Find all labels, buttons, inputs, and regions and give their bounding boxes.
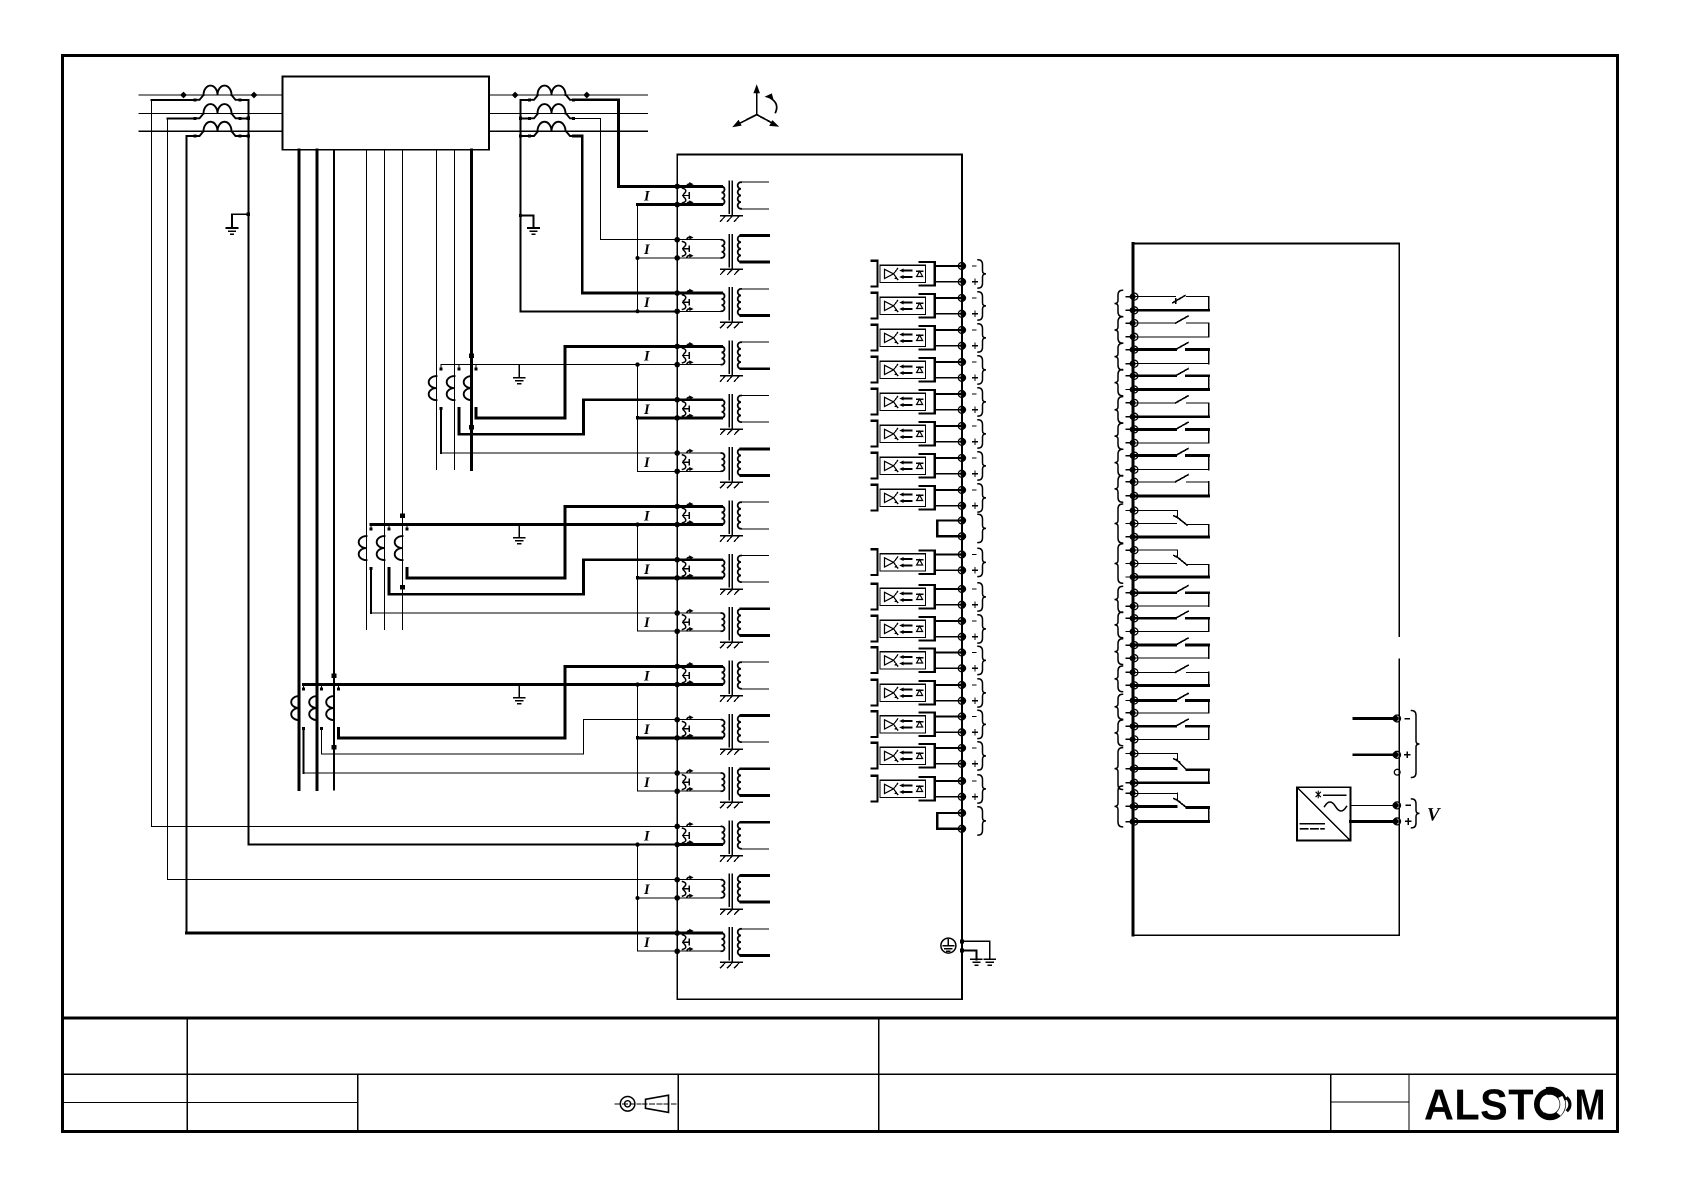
opto input L3	[871, 325, 961, 351]
brace (RL8)	[1115, 476, 1123, 503]
label + (L7)	[973, 471, 978, 476]
current input transformer T7 (input I7)	[674, 501, 768, 541]
ground (left CT group)	[227, 228, 238, 234]
label + (L9)	[973, 568, 978, 573]
svg-text:I: I	[643, 882, 651, 898]
wire CT-RA s2 to I1 top	[574, 100, 678, 187]
label + (L4)	[973, 375, 978, 380]
GB-CT2 top stub	[388, 525, 390, 529]
output contact RL12	[1133, 611, 1209, 631]
wire I2 bottom return	[638, 257, 678, 259]
brace (J2)	[978, 807, 986, 835]
svg-text:I: I	[643, 615, 651, 631]
phase A line (left)	[139, 94, 283, 96]
wire earth link a	[962, 941, 990, 959]
wire riser x186 (to I15 top)	[185, 136, 187, 933]
brace (L5)	[978, 388, 986, 416]
output contact RL16	[1133, 719, 1209, 739]
junction case earth a	[960, 939, 964, 943]
brace (RL10)	[1115, 544, 1123, 583]
svg-text:I: I	[643, 828, 651, 844]
junction I2 bottom	[636, 256, 640, 260]
current input transformer T4 (input I4)	[674, 341, 768, 381]
ground (earth link b)	[971, 959, 982, 965]
junction I13 bottom riser	[635, 842, 639, 846]
wire GB-CT1 stub	[370, 569, 372, 613]
current input transformer T3 (input I3)	[674, 288, 768, 328]
GB-CT2 secondary terminals	[388, 527, 391, 530]
wire I11 bottom	[638, 737, 678, 740]
current input transformer T15 (input I15)	[674, 928, 768, 968]
opto input L8	[871, 485, 961, 511]
projection symbol circles	[615, 1097, 641, 1112]
current transformer CT-RC (line CT, phase C)	[538, 122, 566, 131]
svg-text:ALST: ALST	[1424, 1082, 1534, 1130]
aux supply - line	[1354, 717, 1393, 720]
wire CT-LA s2 to common riser	[240, 99, 248, 101]
output contact RL6	[1133, 422, 1209, 443]
GC-CT2 secondary terminals	[320, 687, 323, 690]
title block divider v3	[357, 1074, 359, 1131]
junction CT-RC s1	[519, 134, 522, 137]
label + (L10)	[973, 602, 978, 607]
wire I6 bottom	[638, 470, 678, 472]
GB-CT3 polarity markers	[400, 513, 405, 518]
junction I14 bottom	[636, 896, 640, 900]
wire GA-CT1 stub	[440, 409, 442, 453]
output contact RL3	[1133, 343, 1209, 364]
svg-text:I: I	[643, 242, 651, 258]
ALSTOM logo	[1424, 1082, 1606, 1130]
brace (RL14)	[1115, 666, 1123, 692]
current transformer CT-LA (line CT, phase A)	[204, 86, 232, 95]
wire I9 bottom	[638, 630, 678, 632]
output contact RL11	[1133, 586, 1209, 607]
label + (V)	[1406, 819, 1412, 825]
opto input L14	[871, 711, 961, 737]
opto input L15	[871, 743, 961, 769]
junction ground tap right	[519, 214, 522, 217]
junction GB return/riser	[635, 522, 639, 526]
wire GB common riser x637	[637, 525, 639, 632]
label - (L12)	[973, 652, 977, 654]
terminal pair L3	[958, 327, 965, 334]
field voltage + line	[1350, 820, 1393, 823]
CT-LA secondary terminals	[194, 98, 197, 101]
phase C line (left)	[139, 130, 283, 132]
label + (L14)	[973, 730, 978, 735]
junction I5 bottom	[636, 416, 639, 419]
field voltage - line	[1350, 804, 1393, 806]
svg-text:I: I	[643, 402, 651, 418]
ground (earth link a)	[984, 959, 995, 965]
CT-LB secondary terminals	[194, 117, 197, 120]
current input transformer T11 (input I11)	[674, 715, 768, 755]
GA-CT3 top stub	[475, 365, 477, 369]
jumper link J1	[937, 519, 961, 521]
current transformer CT-LB (line CT, phase B)	[204, 104, 232, 113]
opto input L2	[871, 293, 961, 319]
label + (L1)	[973, 279, 978, 284]
label - (L5)	[973, 393, 977, 395]
opto input L4	[871, 357, 961, 383]
terminal pair J1	[958, 517, 965, 524]
current transformer GA-CT1	[429, 376, 437, 400]
label + (L8)	[973, 503, 978, 508]
label - (L7)	[973, 457, 977, 459]
wire GC-CT1 stub	[303, 729, 305, 773]
svg-text:I: I	[643, 935, 651, 951]
GB-CT3 top stub	[406, 525, 408, 529]
ground (GA group)	[514, 378, 525, 384]
GA-CT1 secondary terminals	[440, 367, 443, 370]
terminal pair L5	[958, 391, 965, 398]
wire common riser x637 (I13-I15)	[637, 845, 639, 952]
GC-CT1 secondary terminals	[302, 687, 305, 690]
ground stub (right CT group)	[521, 216, 534, 229]
polarity diamond CT-RA P2	[583, 92, 590, 99]
GA-CT1 top stub	[440, 365, 442, 369]
current transformer GB-CT3	[395, 536, 403, 560]
brace (L1)	[978, 260, 986, 288]
changeover contact RL9	[1133, 511, 1209, 537]
junction GC return/riser	[635, 682, 639, 686]
brace (RL15)	[1115, 694, 1123, 719]
label - (L9)	[973, 554, 977, 556]
wire GC-CT1 to I12 top	[304, 772, 678, 774]
terminal pair RL5	[1131, 399, 1138, 406]
brace (RL12)	[1115, 612, 1123, 638]
current input transformer T9 (input I9)	[674, 608, 768, 648]
brace (L11)	[978, 615, 986, 643]
brace (J1)	[978, 514, 986, 542]
brace (RL1)	[1115, 290, 1123, 316]
wire GA-CT2 to I5 top	[459, 400, 677, 435]
brace (RL2)	[1115, 317, 1123, 343]
power transformer block T1	[283, 77, 489, 150]
GA-CT2 secondary terminals	[458, 367, 461, 370]
wire GC return line to I10 bottom	[304, 683, 678, 686]
junction CT-RB s1	[519, 117, 522, 120]
current input transformer T6 (input I6)	[674, 448, 768, 488]
brace (RL4)	[1115, 370, 1123, 396]
GC CT2 primary line	[316, 150, 319, 790]
GC-CT1 top stub	[303, 685, 305, 689]
current input transformer T1 (input I1)	[674, 181, 768, 221]
terminal pair L9	[958, 551, 965, 558]
title block divider v6	[1408, 1074, 1410, 1131]
wire I15 top feed	[187, 932, 678, 935]
terminal pair RL16	[1131, 723, 1138, 730]
opto input L9	[871, 549, 961, 575]
wire CT-RB s1 stub	[521, 117, 530, 119]
label - (L2)	[973, 297, 977, 299]
output contact RL4	[1133, 369, 1209, 390]
brace (RL13)	[1115, 639, 1123, 665]
wire GA-CT3 to I4 top	[476, 346, 677, 418]
terminal pair L7	[958, 455, 965, 462]
wire GA return line to I4 bottom	[441, 364, 677, 366]
GB-CT1 secondary terminals	[370, 527, 373, 530]
GB CT2 primary line	[384, 150, 386, 630]
current input transformer T8 (input I8)	[674, 555, 768, 595]
label + (L5)	[973, 407, 978, 412]
output contact RL13	[1133, 638, 1209, 658]
phase B line (right)	[489, 113, 647, 115]
polarity diamond CT-LA P1	[180, 92, 187, 99]
GC-CT3 polarity markers	[332, 673, 337, 678]
label - (L13)	[973, 684, 977, 686]
opto input L11	[871, 616, 961, 642]
CT-RB secondary terminals	[528, 117, 531, 120]
GC-CT2 top stub	[321, 685, 323, 689]
current transformer CT-LC (line CT, phase C)	[204, 122, 232, 131]
terminal pair L2	[958, 295, 965, 302]
wire GB-CT1 to I9 top	[371, 612, 677, 614]
opto input L1	[871, 261, 961, 287]
GA CT3 primary line	[470, 150, 473, 470]
wire I13 bottom feed	[248, 844, 677, 846]
terminal pair L14	[958, 713, 965, 720]
terminal pair RL8	[1131, 478, 1138, 485]
junction I3 bottom	[636, 309, 640, 313]
title block rev sub-rule	[1331, 1101, 1409, 1103]
wire CT-LC s2 stub	[240, 135, 248, 137]
title block left sub-rule	[63, 1101, 358, 1103]
brace (L8)	[978, 484, 986, 512]
terminal pair L13	[958, 682, 965, 689]
wire GC-CT2 to I11 top	[322, 720, 678, 755]
wire GB return line to I7 bottom	[371, 523, 677, 526]
current transformer GA-CT2	[447, 376, 455, 400]
label - (L11)	[973, 620, 977, 622]
relay unit 1 case (analog/opto input box)	[677, 155, 962, 1000]
ground stub GC	[518, 685, 520, 698]
ground stub GA	[518, 365, 520, 378]
changeover contact RL17	[1133, 754, 1209, 783]
phase rotation symbol	[732, 84, 779, 127]
wire GB-CT3 to I7 top	[407, 506, 677, 578]
relay unit 2 case right edge (lower)	[1398, 660, 1400, 936]
wire GA common riser x637	[637, 365, 639, 472]
GB-CT1 top stub	[370, 525, 372, 529]
wire I14 top feed	[168, 879, 678, 881]
svg-text:I: I	[643, 775, 651, 791]
label + (L2)	[973, 311, 978, 316]
output contact RL8	[1133, 475, 1209, 496]
wire CT-LC s1 to riser	[187, 135, 196, 137]
terminal pair RL2	[1131, 320, 1138, 327]
brace (L3)	[978, 324, 986, 352]
current transformer GA-CT3	[464, 376, 472, 400]
brace (field voltage V)	[1412, 799, 1420, 828]
wire I5 bottom	[638, 417, 678, 420]
label + (L11)	[973, 634, 978, 639]
wire GA-CT1 to I6 top	[441, 452, 677, 454]
brace (RL16)	[1115, 720, 1123, 746]
case earth terminal symbol	[941, 938, 956, 953]
current transformer CT-RB (line CT, phase B)	[538, 104, 566, 113]
GA-CT3 polarity markers	[469, 353, 474, 358]
svg-text:I: I	[643, 562, 651, 578]
wire riser x151 (to I13 top)	[151, 100, 153, 827]
aux supply + terminal	[1394, 751, 1401, 758]
wire CT-RA s1 to common riser	[521, 99, 530, 101]
label + (L13)	[973, 698, 978, 703]
output contact RL5	[1133, 396, 1209, 417]
terminal pair L12	[958, 649, 965, 656]
title block divider v1	[186, 1018, 188, 1132]
junction case earth b	[960, 948, 964, 952]
wire earth link b	[962, 950, 976, 959]
current transformer GC-CT2	[309, 696, 317, 720]
terminal pair RL11	[1131, 589, 1138, 596]
terminal pair L6	[958, 423, 965, 430]
jumper link J2	[937, 812, 961, 814]
wire I14 bottom	[638, 897, 678, 899]
terminal pair RL6	[1131, 426, 1138, 433]
wire riser x167 (to I14 top)	[167, 118, 169, 879]
opto input L13	[871, 680, 961, 706]
GC-CT3 top stub	[338, 685, 340, 689]
brace (L12)	[978, 646, 986, 674]
wire I1 bottom return	[638, 203, 678, 206]
current input transformer T2 (input I2)	[674, 235, 768, 275]
terminal pair J2	[958, 810, 965, 817]
svg-text:I: I	[643, 722, 651, 738]
junction I11 bottom	[636, 736, 639, 739]
brace (L15)	[978, 742, 986, 770]
label - (V)	[1406, 804, 1410, 806]
brace (L13)	[978, 679, 986, 707]
brace (RL7)	[1115, 449, 1123, 476]
terminal pair L16	[958, 778, 965, 785]
title block top rule	[63, 1016, 1618, 1019]
brace (L16)	[978, 775, 986, 803]
relay unit 2 case top edge	[1133, 242, 1399, 244]
terminal pair L10	[958, 586, 965, 593]
GC-CT3 secondary terminals	[337, 687, 340, 690]
GA CT1 primary line	[436, 150, 438, 470]
junction ground tap	[247, 213, 250, 216]
junction CT-LB s2	[247, 117, 250, 120]
brace (RL17)	[1115, 748, 1123, 790]
brace (RL18)	[1115, 786, 1123, 827]
relay unit 2 case bottom edge	[1133, 934, 1399, 936]
junction I8 bottom	[636, 576, 639, 579]
brace (L14)	[978, 710, 986, 738]
phase A line (right)	[489, 94, 647, 96]
polarity diamond CT-RA P1	[512, 92, 519, 99]
terminal triple RL9	[1131, 507, 1138, 514]
label + (L3)	[973, 343, 978, 348]
GA-CT2 top stub	[458, 365, 460, 369]
current transformer GB-CT1	[359, 536, 367, 560]
terminal triple RL18	[1131, 790, 1138, 797]
wire GC common riser x637	[637, 685, 639, 792]
output contact RL15	[1133, 694, 1209, 713]
terminal pair RL14	[1131, 669, 1138, 676]
wire return riser x637 (I1-I3)	[637, 205, 639, 312]
wire CT-LA s1 to riser	[152, 99, 196, 101]
terminal pair RL7	[1131, 452, 1138, 459]
current input transformer T14 (input I14)	[674, 874, 768, 914]
ground (GB group)	[514, 538, 525, 544]
terminal pair RL15	[1131, 697, 1138, 704]
label - (L16)	[973, 780, 977, 782]
terminal pair L11	[958, 618, 965, 625]
wire common riser x520 (to I3 bottom)	[521, 100, 678, 311]
changeover contact RL10	[1133, 550, 1209, 577]
GA-CT3 secondary terminals	[475, 367, 478, 370]
phase B line (left)	[139, 113, 283, 115]
ground stub GB	[518, 525, 520, 538]
wire CT-RC s2 to I3 top	[574, 136, 678, 293]
terminal pair RL4	[1131, 372, 1138, 379]
relay unit 2 case right edge (upper)	[1398, 243, 1400, 636]
brace (RL9)	[1115, 504, 1123, 543]
opto input L12	[871, 647, 961, 673]
terminal pair L15	[958, 745, 965, 752]
wire CT-RB s2 to I2 top	[574, 118, 678, 239]
opto input L6	[871, 421, 961, 447]
title block mid rule	[63, 1073, 1618, 1075]
output contact RL2	[1133, 316, 1209, 337]
brace (L7)	[978, 452, 986, 480]
current input transformer T12 (input I12)	[674, 768, 768, 808]
current transformer GC-CT1	[291, 696, 299, 720]
power supply unit (ac/dc converter)	[1297, 787, 1350, 840]
GB CT1 primary line	[366, 150, 368, 630]
ground (GC group)	[514, 698, 525, 704]
brace (RL5)	[1115, 397, 1123, 423]
terminal pair RL12	[1131, 615, 1138, 622]
opto input L7	[871, 453, 961, 479]
projection symbol cone	[642, 1095, 676, 1112]
wire I12 bottom	[638, 790, 678, 792]
wire common riser x248 (to I13 bottom)	[247, 100, 249, 845]
wire GC-CT3 to I10 top	[339, 666, 678, 738]
brace (L6)	[978, 420, 986, 448]
aux supply + line	[1354, 753, 1393, 756]
title block divider v5	[1330, 1074, 1332, 1131]
changeover contact RL18	[1133, 793, 1209, 821]
terminal pair RL3	[1131, 346, 1138, 353]
terminal triple RL10	[1131, 547, 1138, 554]
CT-RA secondary terminals	[528, 98, 531, 101]
current transformer GB-CT2	[377, 536, 385, 560]
brace (L9)	[978, 548, 986, 576]
GB-CT3 secondary terminals	[406, 527, 409, 530]
svg-text:V: V	[1427, 805, 1441, 826]
svg-text:I: I	[643, 455, 651, 471]
label - (L8)	[973, 489, 977, 491]
terminal pair L8	[958, 487, 965, 494]
svg-text:I: I	[643, 508, 651, 524]
GC CT3 primary line	[333, 150, 335, 790]
GC CT1 primary line	[298, 150, 301, 790]
brace (L2)	[978, 292, 986, 320]
svg-text:M: M	[1575, 1082, 1606, 1130]
output contact RL1 (NC watchdog)	[1133, 296, 1209, 311]
field voltage - terminal	[1394, 802, 1401, 809]
wire CT-LB s2 stub	[240, 117, 248, 119]
label + (L15)	[973, 761, 978, 766]
current input transformer T13 (input I13)	[674, 821, 768, 861]
opto input L10	[871, 584, 961, 610]
output contact RL7	[1133, 449, 1209, 470]
brace (RL6)	[1115, 423, 1123, 449]
